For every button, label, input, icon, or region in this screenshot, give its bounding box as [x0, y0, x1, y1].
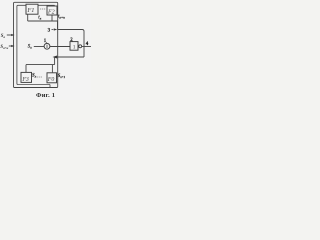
block F3	[21, 72, 32, 82]
wire: stub from F2 down to bus	[51, 15, 53, 21]
inner box right-top stub	[54, 5, 56, 7]
wire: collecting bus under F-blocks	[28, 20, 58, 22]
svg-text:F0: F0	[47, 77, 55, 83]
wire: feedback down from node	[83, 47, 85, 57]
block F2	[47, 6, 57, 15]
wire: block 2 output to node	[82, 46, 91, 48]
node 3 arrow (output leaving box)	[54, 28, 58, 30]
svg-text:Sx+1: Sx+1	[58, 74, 66, 79]
outer box (device boundary)	[14, 2, 58, 87]
svg-text:Фиг. 1: Фиг. 1	[36, 92, 55, 99]
inner box right-bottom stub	[49, 85, 51, 88]
block 2 (threshold element)	[70, 42, 78, 51]
svg-text:Sx: Sx	[28, 44, 32, 49]
wire: stub down into F0	[51, 65, 53, 73]
wire: from circle to block 2	[50, 46, 70, 48]
block F1	[26, 4, 38, 14]
circle element (modulator) ref 1	[44, 43, 50, 49]
wire: bus down along right edge	[57, 21, 59, 30]
wire: feedback down inside box	[54, 57, 56, 65]
block F0	[47, 73, 57, 83]
svg-text:F3: F3	[21, 77, 29, 83]
wire: feedback to the left, entering box	[55, 56, 84, 58]
feedback entry arrowhead	[53, 56, 58, 59]
inner box (device boundary, second line, open on right)	[17, 5, 55, 84]
wire: internal line to circle element	[34, 46, 44, 48]
svg-text:tx: tx	[38, 15, 41, 20]
svg-text:F1: F1	[26, 7, 34, 14]
wire: stub down into F3	[25, 65, 27, 73]
svg-text:tx+n: tx+n	[58, 15, 65, 20]
wire: distribution line to bottom blocks	[26, 64, 55, 66]
ellipsis dots between F3 and F0	[37, 76, 38, 77]
svg-text:Sx: Sx	[32, 74, 37, 79]
svg-text:Sa+u: Sa+u	[0, 45, 8, 50]
wire: stub from F1 down to bus	[27, 14, 29, 21]
svg-text:Sa: Sa	[1, 34, 6, 39]
wire: output line to the right, corner down at x=84	[58, 30, 85, 47]
svg-text:F2: F2	[47, 9, 55, 15]
output contact circle of block 2	[79, 45, 82, 48]
ellipsis dots between F1 and F2	[40, 8, 41, 9]
svg-text:1: 1	[73, 45, 76, 51]
svg-text:3: 3	[48, 28, 51, 33]
